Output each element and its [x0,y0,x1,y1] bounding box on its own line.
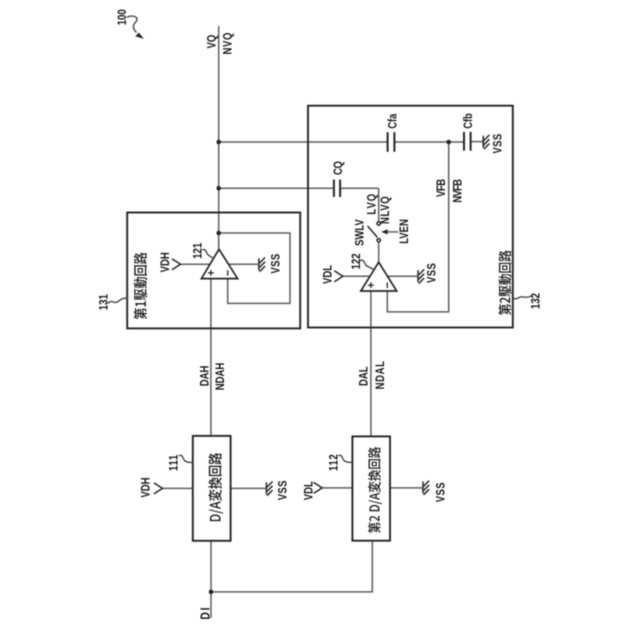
svg-text:VSS: VSS [425,263,438,283]
svg-text:VDH: VDH [139,477,152,497]
svg-text:VSS: VSS [434,482,447,502]
svg-text:112: 112 [328,454,341,471]
svg-text:Cfa: Cfa [388,114,400,129]
svg-text:NLVQ: NLVQ [379,196,392,224]
svg-text:132: 132 [530,293,543,309]
svg-text:LVQ: LVQ [365,193,378,215]
svg-text:VSS: VSS [276,480,289,500]
svg-text:DAL: DAL [357,366,370,386]
svg-text:121: 121 [192,243,205,259]
svg-text:CQ: CQ [332,161,345,175]
svg-text:122: 122 [350,253,363,269]
svg-text:VDL: VDL [321,265,334,284]
svg-text:LVEN: LVEN [398,219,411,244]
svg-text:VQ: VQ [206,34,219,48]
svg-text:VSS: VSS [269,253,282,273]
svg-text:100: 100 [116,9,129,25]
svg-text:VFB: VFB [435,179,448,197]
svg-text:111: 111 [168,454,181,471]
svg-text:NVFB: NVFB [451,179,464,203]
svg-text:NVQ: NVQ [222,32,235,54]
svg-text:VDL: VDL [302,481,315,500]
svg-text:VDH: VDH [159,252,172,272]
svg-text:131: 131 [97,294,110,310]
svg-text:SWLV: SWLV [353,219,366,246]
svg-text:NDAL: NDAL [374,360,387,389]
svg-text:DI: DI [199,606,213,620]
svg-text:VSS: VSS [491,133,504,153]
svg-text:DAH: DAH [198,366,211,387]
svg-text:NDAH: NDAH [214,363,227,391]
svg-text:Cfb: Cfb [463,113,475,128]
